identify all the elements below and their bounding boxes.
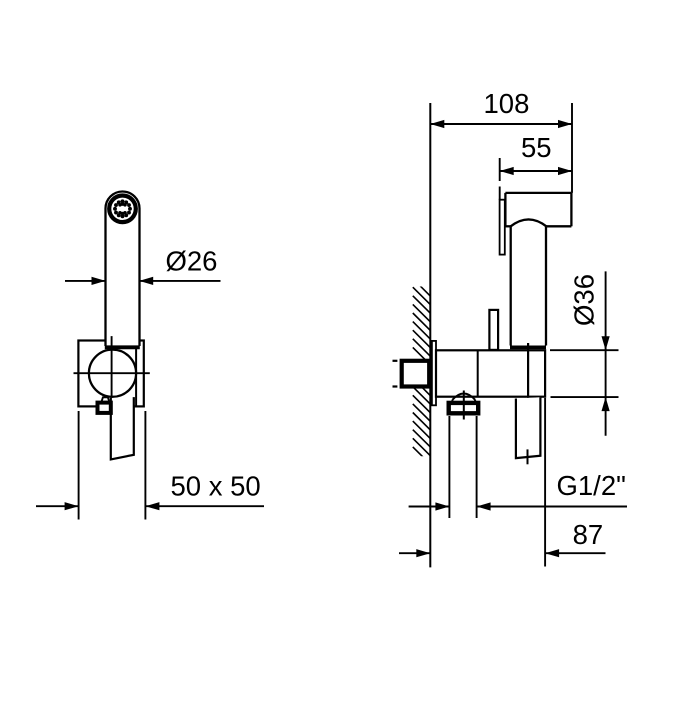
dimension 87 arrow left (points right) <box>416 549 430 557</box>
handle tube left edge (side) <box>510 226 512 345</box>
spray face ring <box>109 196 136 223</box>
holder bracket side edge <box>135 348 137 407</box>
spray face plate (side) <box>500 200 505 255</box>
svg-text:50 x 50: 50 x 50 <box>171 470 261 501</box>
50x50 arrow right (points left) <box>145 502 159 510</box>
sprayer head bottom edge left stub <box>505 225 510 227</box>
dimension Ø36 extension top <box>550 349 619 351</box>
wall plate square 50x50 <box>78 341 143 407</box>
dimension G1/2 extension line right <box>476 416 478 518</box>
svg-text:Ø36: Ø36 <box>569 274 600 326</box>
dimension 108 arrow right <box>558 120 572 128</box>
G1/2 inlet fitting <box>402 361 430 387</box>
crosshair vertical centerline <box>111 336 113 403</box>
sprayer head left edge <box>504 193 506 226</box>
holder body joint line <box>477 350 479 396</box>
dimension 55 line <box>500 170 572 172</box>
handle inner tube line <box>527 343 529 439</box>
holder knob circle <box>89 350 136 397</box>
dimension 87 line right <box>545 552 605 554</box>
G1/2 inlet fitting stub bottom <box>393 385 398 387</box>
outlet nut (side) <box>449 403 479 413</box>
sprayer head bottom edge right <box>546 225 571 227</box>
dimension 55 arrow left <box>500 167 514 175</box>
dimension Ø26 line right segment <box>140 280 221 282</box>
wall line (also 108 left extension) <box>429 103 431 567</box>
dimension Ø36 arrow top (points down) <box>602 336 610 350</box>
dimension 108 right extension line / head right <box>571 103 573 193</box>
dimension Ø36 vertical line <box>605 271 607 435</box>
escutcheon plate (side) <box>432 341 436 405</box>
dimension Ø26 arrow left (points right) <box>92 277 106 285</box>
G1/2 inlet fitting stub top <box>393 360 398 362</box>
handle end cap (front) <box>105 345 140 349</box>
outlet nut (front) <box>98 403 111 413</box>
handle tube right edge (side) <box>545 226 547 345</box>
dimension G1/2 line <box>409 506 450 508</box>
sprayer head top edge <box>505 192 571 194</box>
dimension Ø26 line left segment <box>65 280 105 282</box>
dimension G1/2 arrow right (points left) <box>477 502 491 510</box>
wall hatching upper band <box>413 279 431 365</box>
dimension 108 line <box>430 123 572 125</box>
outlet nut centerline <box>463 391 465 420</box>
grip (front, hangs below) <box>111 397 134 459</box>
dimension 55 extension line <box>499 158 501 181</box>
wall hatching lower band <box>413 378 431 464</box>
dimension 87 arrow right (points left) <box>545 549 559 557</box>
holder clip arm (side) <box>489 310 498 350</box>
svg-text:87: 87 <box>573 519 604 550</box>
spray nozzle dots <box>113 199 132 218</box>
outlet nut dome (front) <box>101 397 109 402</box>
outlet nut dome (side) <box>452 394 475 403</box>
dimension G1/2 extension line left <box>448 416 450 518</box>
handle cylinder outline <box>106 192 140 346</box>
dimension G1/2 line right <box>477 506 627 508</box>
sprayer head (side) white fill <box>505 193 571 226</box>
dimension Ø26 arrow right (points left) <box>139 277 153 285</box>
svg-text:55: 55 <box>521 132 552 163</box>
handle cylinder body (front) <box>106 192 140 347</box>
sprayer head right edge <box>570 193 572 226</box>
neck dome arc <box>511 219 547 226</box>
50x50 extension line left <box>78 411 80 520</box>
crosshair horizontal centerline <box>74 372 150 374</box>
handle end cap (side) <box>510 345 546 349</box>
dimension Ø36 extension bottom <box>551 396 619 398</box>
dimension 55 arrow right <box>558 167 572 175</box>
dimension 87 line left <box>399 552 430 554</box>
50x50 dimension line left segment <box>36 505 79 507</box>
dimension Ø36 arrow bottom (points up) <box>602 397 610 411</box>
50x50 extension line right <box>144 411 146 520</box>
svg-text:Ø26: Ø26 <box>166 246 218 277</box>
svg-text:108: 108 <box>484 88 530 119</box>
dimension G1/2 arrow left (points right) <box>435 502 449 510</box>
50x50 arrow left (points right) <box>65 502 79 510</box>
svg-text:G1/2": G1/2" <box>557 470 626 501</box>
50x50 dimension line right segment <box>145 505 264 507</box>
holder body (side) <box>436 350 545 396</box>
dimension 108 arrow left <box>430 120 444 128</box>
grip centerline tick <box>527 449 529 464</box>
body right extension line down <box>544 398 546 567</box>
grip (side) <box>516 397 541 458</box>
